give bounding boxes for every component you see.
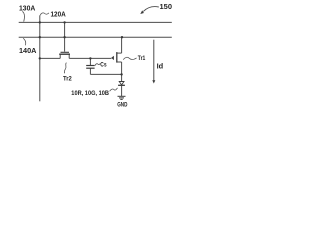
svg-text:GND: GND [117, 102, 127, 109]
svg-text:120A: 120A [51, 9, 67, 18]
svg-text:Tr1: Tr1 [138, 55, 146, 62]
svg-text:10R, 10G, 10B: 10R, 10G, 10B [71, 90, 109, 97]
svg-text:150: 150 [160, 2, 173, 11]
svg-text:Cs: Cs [100, 61, 106, 68]
svg-text:Tr2: Tr2 [63, 76, 72, 83]
svg-text:130A: 130A [19, 3, 36, 12]
svg-text:140A: 140A [19, 46, 37, 55]
svg-text:Id: Id [157, 61, 164, 70]
